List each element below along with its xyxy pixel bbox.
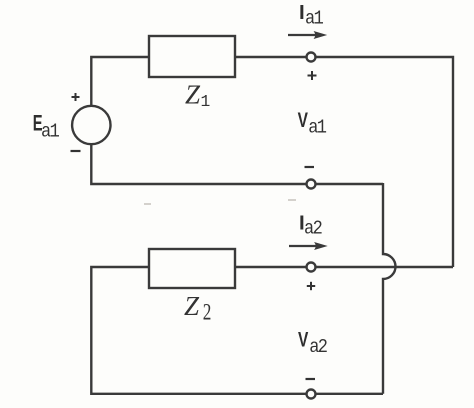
faint print artifact dashes bbox=[144, 200, 296, 204]
node terminal Va1 plus bbox=[307, 53, 316, 62]
current arrow Ia2 bbox=[289, 242, 328, 250]
voltage source Ea1 bbox=[72, 106, 110, 144]
impedance Z2 bbox=[149, 249, 235, 288]
svg-text:Z: Z bbox=[184, 291, 200, 321]
polarity plus Va1 bbox=[308, 71, 317, 80]
wire Z2 right to right vertical bbox=[235, 266, 453, 268]
polarity plus Va2 bbox=[307, 282, 315, 290]
label Ea1 bbox=[33, 111, 59, 142]
polarity minus Va2 bbox=[306, 378, 316, 380]
svg-text:I: I bbox=[299, 1, 305, 24]
polarity plus of source Ea1 bbox=[72, 93, 80, 101]
svg-text:2: 2 bbox=[203, 300, 212, 325]
label Z2 bbox=[184, 291, 211, 325]
node terminal Va2 minus bbox=[307, 390, 316, 399]
label Z1 bbox=[185, 80, 210, 112]
polarity minus Va1 bbox=[305, 166, 315, 168]
label Ia2 bbox=[299, 211, 322, 239]
wire source bottom to Va1 bottom rail bbox=[91, 144, 383, 184]
label Ia1 bbox=[299, 1, 323, 30]
svg-text:a2: a2 bbox=[304, 219, 322, 240]
svg-text:a1: a1 bbox=[41, 122, 59, 143]
polarity minus of source Ea1 bbox=[71, 150, 81, 152]
impedance Z1 bbox=[149, 36, 235, 77]
wire circuit2 left loop and bottom rail bbox=[91, 267, 383, 394]
wire source top to Z1 left bbox=[91, 57, 149, 106]
svg-text:a1: a1 bbox=[308, 118, 326, 139]
svg-text:Z: Z bbox=[185, 80, 201, 110]
svg-text:V: V bbox=[298, 108, 309, 132]
current arrow Ia1 bbox=[288, 31, 327, 39]
svg-text:V: V bbox=[298, 327, 309, 351]
svg-text:a2: a2 bbox=[309, 337, 327, 358]
wire Z1 right to top-right corner and down right side bbox=[235, 57, 453, 267]
wire Va1 rail down with hop over Ia2 rail bbox=[383, 183, 396, 394]
node terminal Va1 minus bbox=[307, 180, 316, 189]
svg-text:a1: a1 bbox=[305, 9, 323, 30]
label Va2 bbox=[298, 327, 327, 358]
label Va1 bbox=[298, 108, 327, 139]
svg-text:1: 1 bbox=[201, 92, 211, 111]
node terminal Va2 plus bbox=[307, 263, 316, 272]
